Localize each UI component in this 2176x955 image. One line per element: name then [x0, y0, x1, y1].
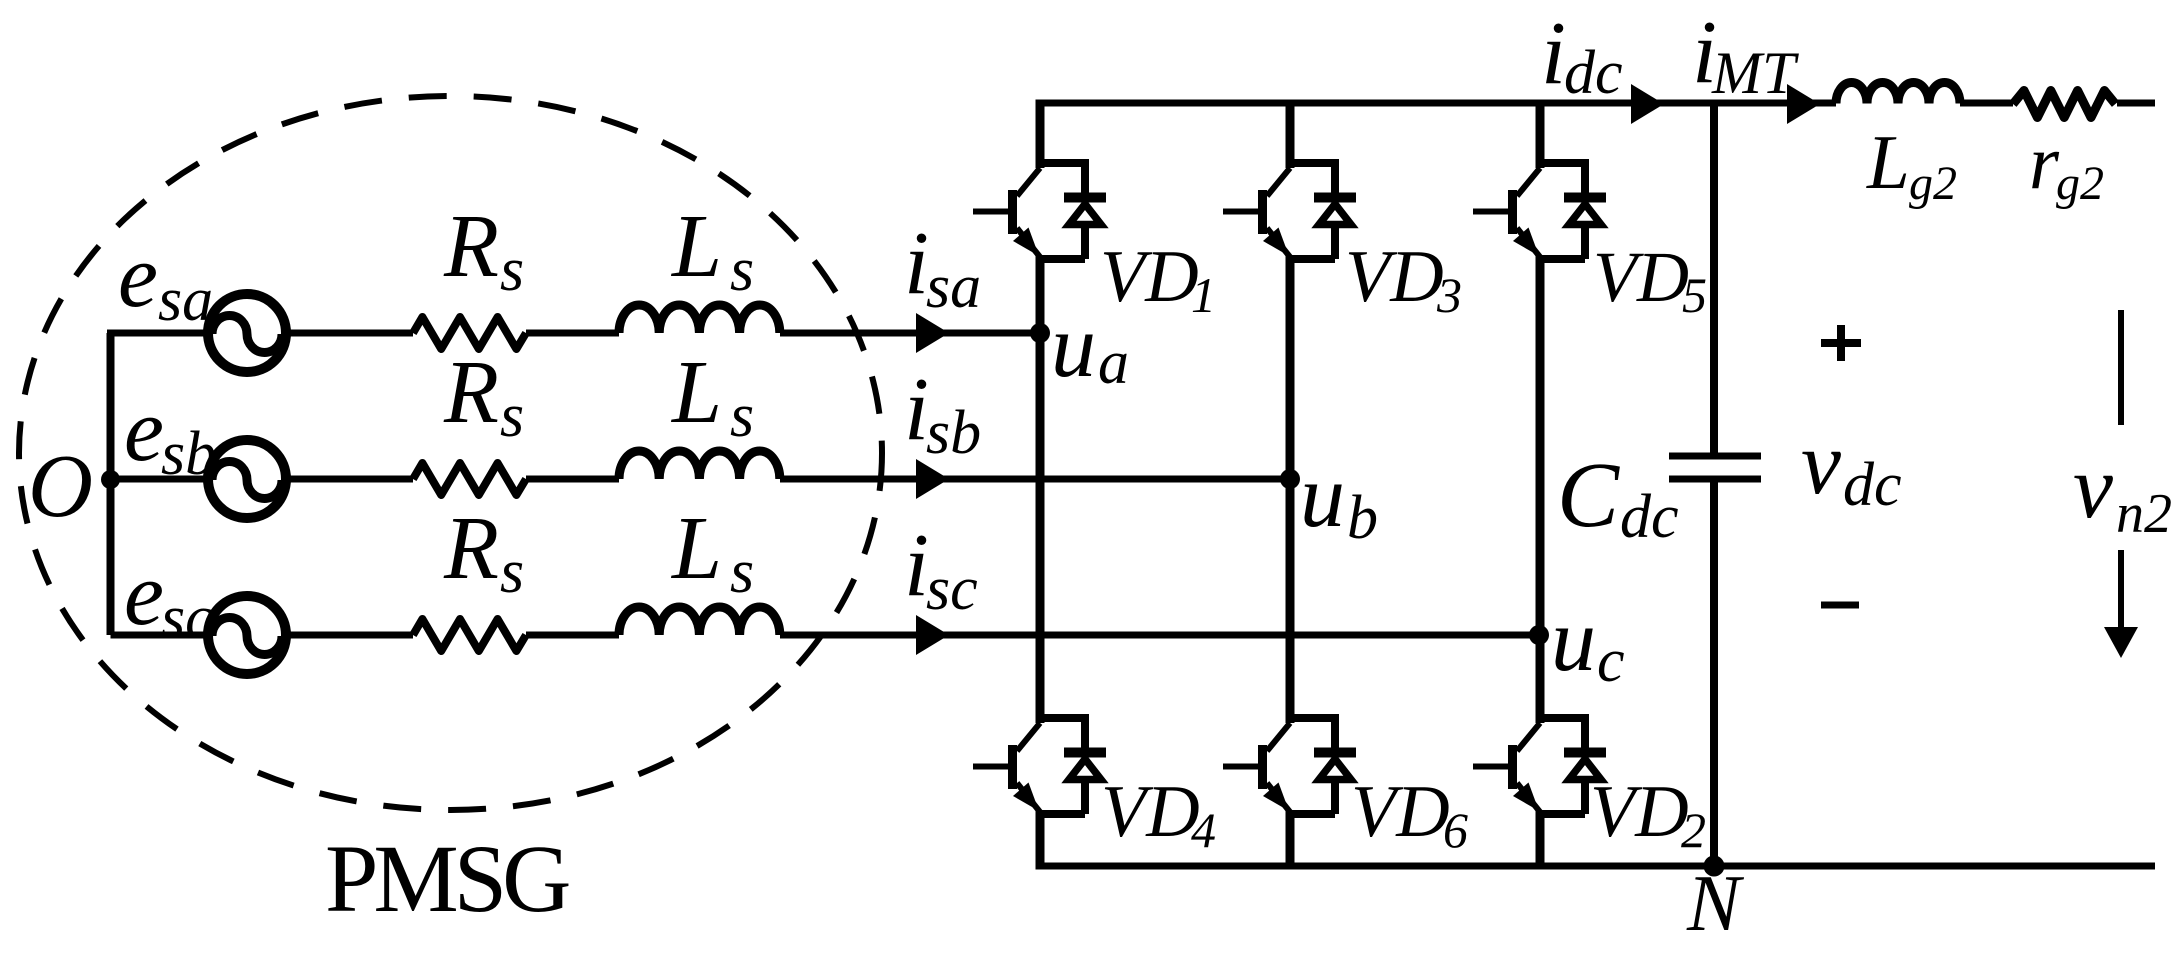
PMSG dashed boundary ellipse	[19, 96, 882, 810]
inductor L_s (phase a)	[619, 305, 780, 333]
inductor L_g2	[1836, 83, 1960, 104]
capacitor C_dc leg lower	[1710, 482, 1718, 866]
node u_a	[1030, 323, 1050, 343]
svg-text:sb: sb	[161, 420, 216, 488]
voltage arrow v_n2 lower segment with arrowhead	[2104, 550, 2138, 658]
svg-text:C: C	[1557, 444, 1620, 547]
wire: phase a source to resistor	[282, 330, 413, 337]
node O label	[28, 437, 93, 536]
svg-text:e: e	[118, 227, 158, 326]
svg-text:c: c	[1597, 627, 1625, 695]
svg-text:6: 6	[1443, 802, 1468, 858]
capacitor C_dc plates	[1669, 456, 1761, 479]
label VD2	[1590, 771, 1706, 858]
svg-text:PMSG: PMSG	[325, 825, 569, 932]
svg-text:s: s	[730, 236, 754, 304]
wire: phase a inductor to node u_a	[780, 330, 1040, 337]
wire: leg 2 vertical segments	[1286, 100, 1295, 866]
minus sign of v_dc	[1821, 602, 1859, 609]
svg-text:3: 3	[1436, 267, 1462, 323]
wire: phase c source to resistor	[282, 632, 413, 639]
label e_sa	[118, 227, 213, 334]
svg-text:VD: VD	[1101, 771, 1200, 853]
svg-text:s: s	[500, 382, 524, 450]
svg-text:sb: sb	[926, 399, 981, 467]
svg-text:sc: sc	[926, 555, 978, 623]
svg-text:u: u	[1051, 297, 1096, 396]
wire: phase b inductor to node u_b	[780, 476, 1290, 483]
current arrow i_dc	[1631, 84, 1664, 124]
bottom DC bus	[1036, 863, 2156, 870]
current arrow i_sc	[916, 615, 949, 655]
svg-text:R: R	[443, 343, 499, 442]
transistor VD5 (IGBT with diode)	[1473, 159, 1606, 259]
svg-text:dc: dc	[1843, 451, 1902, 519]
transistor VD2 (IGBT with diode)	[1473, 714, 1606, 814]
svg-text:sa: sa	[158, 266, 213, 334]
resistor r_g2	[2013, 91, 2115, 118]
svg-text:L: L	[670, 499, 722, 598]
wire: phase b source to resistor	[282, 476, 413, 483]
label i_sa	[904, 214, 981, 321]
top DC bus	[1036, 100, 2156, 107]
svg-text:2: 2	[1681, 802, 1706, 858]
svg-text:n2: n2	[2116, 483, 2172, 545]
svg-text:VD: VD	[1593, 237, 1689, 317]
svg-text:s: s	[500, 236, 524, 304]
svg-text:s: s	[730, 538, 754, 606]
svg-text:e: e	[124, 381, 164, 480]
transistor VD6 (IGBT with diode)	[1223, 714, 1356, 814]
resistor R_s (phase c)	[413, 619, 526, 651]
wire: leg 3 vertical segments	[1536, 100, 1545, 866]
svg-text:e: e	[124, 545, 164, 644]
current arrow i_sa	[916, 313, 949, 353]
node O	[101, 470, 120, 489]
svg-text:5: 5	[1682, 267, 1707, 323]
label i_sc	[904, 516, 978, 623]
svg-text:v: v	[1801, 414, 1841, 513]
svg-text:O: O	[28, 437, 93, 536]
label VD5	[1593, 237, 1707, 323]
label v_n2	[2073, 438, 2172, 545]
label e_sb	[124, 381, 216, 488]
svg-text:VD: VD	[1345, 236, 1444, 318]
wire: phase c resistor to inductor	[526, 632, 619, 639]
svg-text:s: s	[500, 538, 524, 606]
label i_MT	[1692, 3, 1799, 106]
wire: phase c inductor to node u_c	[780, 632, 1539, 639]
label VD3	[1345, 236, 1462, 323]
svg-text:R: R	[443, 197, 499, 296]
svg-text:VD: VD	[1351, 771, 1450, 853]
transistor VD4 (IGBT with diode)	[973, 714, 1106, 814]
label L_g2	[1866, 119, 1957, 210]
current arrow i_sb	[916, 459, 949, 499]
svg-text:MT: MT	[1711, 40, 1799, 106]
capacitor C_dc leg upper	[1710, 100, 1718, 454]
label r_g2	[2029, 119, 2104, 210]
label R_s (phase b)	[443, 343, 524, 450]
svg-text:VD: VD	[1590, 771, 1689, 853]
svg-text:a: a	[1098, 329, 1129, 397]
svg-text:sa: sa	[926, 253, 981, 321]
svg-text:i: i	[1541, 4, 1566, 103]
svg-text:dc: dc	[1564, 39, 1623, 107]
label VD4	[1101, 771, 1216, 858]
svg-text:u: u	[1551, 591, 1596, 690]
svg-text:1: 1	[1191, 267, 1216, 323]
node u_c	[1529, 625, 1549, 645]
plus sign of v_dc	[1821, 325, 1861, 361]
label R_s (phase c)	[443, 499, 524, 606]
source e_sa	[208, 294, 286, 372]
wire: phase b resistor to inductor	[526, 476, 619, 483]
label VD6	[1351, 771, 1468, 858]
svg-text:g2: g2	[2056, 157, 2104, 210]
svg-text:dc: dc	[1620, 483, 1679, 551]
svg-text:VD: VD	[1100, 236, 1199, 318]
label i_dc	[1541, 4, 1623, 107]
inductor L_s (phase b)	[619, 451, 780, 479]
svg-text:g2: g2	[1909, 157, 1957, 210]
label v_dc	[1801, 414, 1902, 519]
resistor R_s (phase a)	[413, 317, 526, 349]
wire: phase a resistor to inductor	[526, 330, 619, 337]
svg-text:L: L	[670, 343, 722, 442]
label u_c	[1551, 591, 1625, 695]
svg-text:sc: sc	[161, 584, 213, 652]
label L_s (phase a)	[670, 197, 754, 304]
svg-text:4: 4	[1191, 802, 1216, 858]
svg-text:L: L	[670, 197, 722, 296]
label N	[1686, 860, 1745, 948]
node N	[1704, 856, 1725, 877]
source e_sb	[208, 440, 286, 518]
label L_s (phase b)	[670, 343, 754, 450]
svg-text:L: L	[1866, 119, 1910, 205]
svg-text:R: R	[443, 499, 499, 598]
wire: neutral vertical bus	[107, 333, 115, 635]
label e_sc	[124, 545, 213, 652]
label u_a	[1051, 297, 1129, 397]
current arrow i_MT	[1787, 84, 1820, 124]
label C_dc	[1557, 444, 1679, 551]
transistor VD1 (IGBT with diode)	[973, 159, 1106, 259]
wire: phase a from O to source	[107, 330, 212, 337]
source e_sc	[208, 596, 286, 674]
resistor R_s (phase b)	[413, 463, 526, 495]
wire: leg 1 vertical segments	[1036, 100, 1045, 866]
inductor L_s (phase c)	[619, 607, 780, 635]
svg-text:s: s	[730, 382, 754, 450]
wire: phase b from O to source	[111, 476, 213, 483]
wire: phase c from O to source	[111, 632, 213, 639]
svg-text:b: b	[1347, 484, 1378, 552]
label L_s (phase c)	[670, 499, 754, 606]
label i_sb	[904, 360, 981, 467]
PMSG label	[325, 825, 569, 932]
label R_s (phase a)	[443, 197, 524, 304]
voltage arrow v_n2 upper segment	[2118, 310, 2124, 425]
transistor VD3 (IGBT with diode)	[1223, 159, 1356, 259]
svg-text:v: v	[2073, 438, 2113, 537]
svg-text:N: N	[1686, 860, 1745, 948]
label VD1	[1100, 236, 1216, 323]
label u_b	[1300, 447, 1378, 552]
node u_b	[1280, 469, 1300, 489]
svg-text:u: u	[1300, 447, 1345, 546]
